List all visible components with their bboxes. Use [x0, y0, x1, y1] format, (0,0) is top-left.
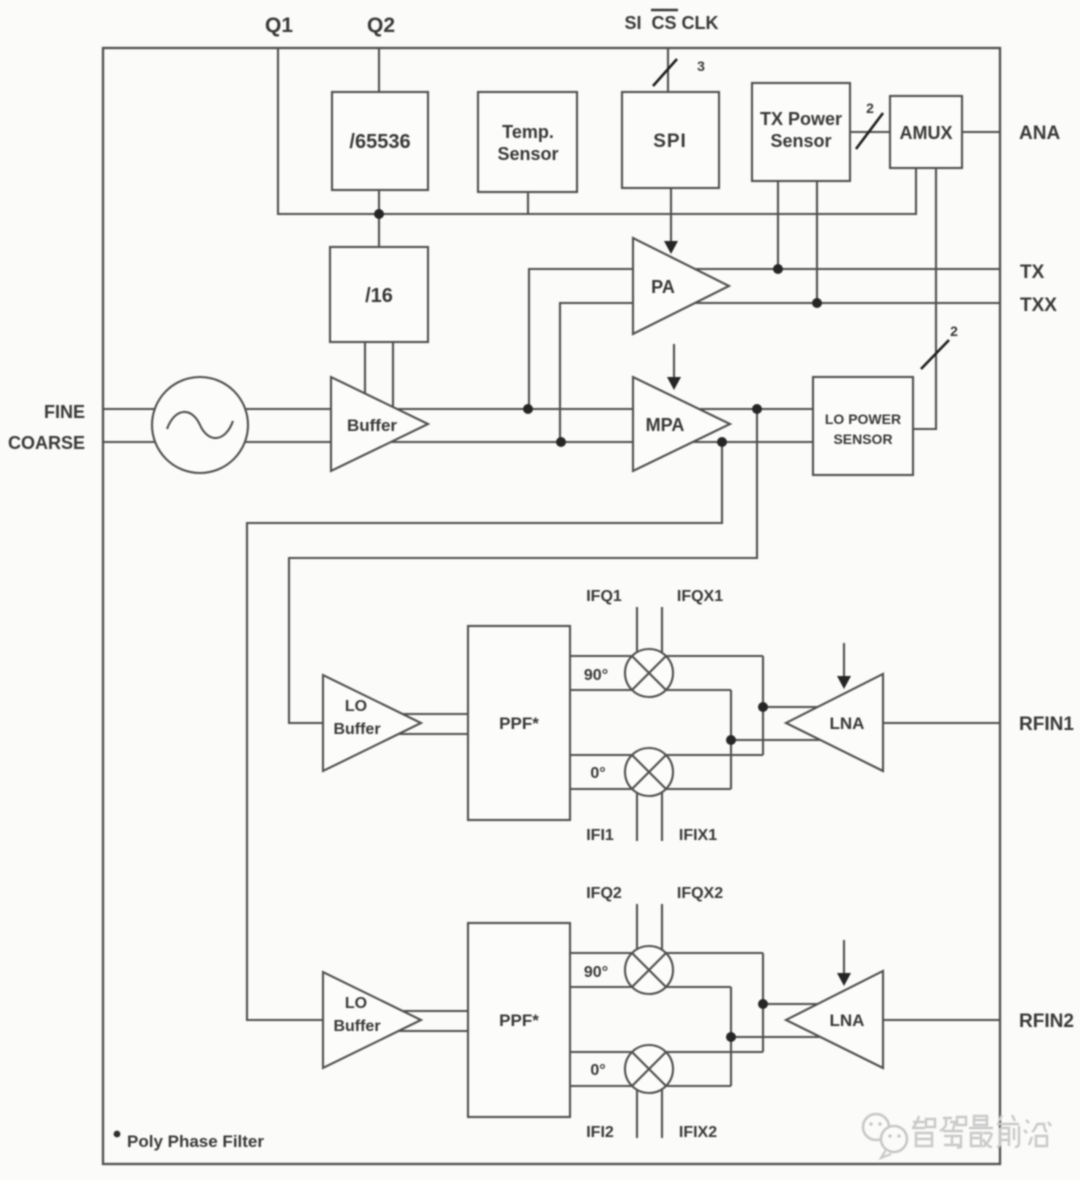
node MPA output upper	[752, 404, 762, 414]
arrow gain control into LNA2	[837, 940, 851, 986]
wire riser buffer output to PA upper input and TX output line	[529, 269, 1000, 409]
PPF block 1	[468, 626, 570, 820]
svg-text:PPF*: PPF*	[499, 714, 539, 733]
wire IFI2 IFIX2 stubs	[637, 1077, 662, 1138]
svg-text:IFQ1: IFQ1	[586, 588, 622, 605]
phase label 0 deg rx2	[590, 1062, 605, 1079]
wire LNA2 upper output	[763, 1003, 855, 1005]
svg-text:CS: CS	[651, 13, 676, 33]
label LO POWER SENSOR	[825, 411, 901, 447]
svg-text:TX Power: TX Power	[760, 109, 842, 129]
phase label 90 deg rx2	[584, 964, 608, 981]
svg-text:IFQX1: IFQX1	[677, 588, 723, 605]
svg-text:IFI2: IFI2	[586, 1124, 614, 1141]
svg-text:IFIX1: IFIX1	[679, 827, 717, 844]
svg-text:0°: 0°	[590, 1062, 605, 1079]
svg-text:LO: LO	[345, 698, 367, 715]
label Buffer	[347, 416, 397, 435]
divider block /16	[330, 247, 428, 342]
wire PPF1 90deg pair to mixer M1 and RF vertical	[570, 656, 763, 690]
pin label IFQX1	[677, 588, 723, 605]
node LNA2 lower	[726, 1032, 736, 1042]
label PA	[651, 277, 675, 297]
svg-text:Q2: Q2	[367, 14, 395, 37]
node LNA2 upper	[758, 999, 768, 1009]
svg-text:SENSOR: SENSOR	[833, 431, 892, 447]
svg-text:RFIN2: RFIN2	[1019, 1011, 1074, 1032]
pin label IFI1	[586, 827, 614, 844]
wire SPI to PA gain arrow	[670, 188, 672, 243]
svg-text:IFI1: IFI1	[586, 827, 614, 844]
bus width label 2 at LO power sensor	[950, 323, 958, 339]
pin label RFIN2	[1019, 1011, 1074, 1032]
bus width slash 3 at SPI	[653, 59, 677, 86]
svg-text:COARSE: COARSE	[8, 433, 85, 453]
arrow gain control into MPA	[667, 344, 681, 390]
bus width label 2 at AMUX	[866, 100, 874, 116]
node MPA output lower	[717, 437, 727, 447]
svg-text:Sensor: Sensor	[497, 144, 558, 164]
svg-text:PA: PA	[651, 277, 675, 297]
pin label IFQX2	[677, 885, 723, 902]
svg-text:2: 2	[866, 100, 874, 116]
pin label COARSE	[8, 433, 85, 453]
temp sensor block	[478, 92, 577, 192]
phase label 0 deg rx1	[590, 765, 605, 782]
pin label TX	[1020, 262, 1045, 283]
wire MPA lower output down to LO Buffer 2	[247, 442, 722, 1020]
wire IFQ1 IFQX1 stubs	[637, 607, 662, 666]
label LNA1	[830, 714, 865, 733]
arrow gain control into PA	[664, 241, 678, 254]
pin label TXX	[1020, 295, 1057, 316]
wire LO Buffer 1 differential output to PPF 1	[340, 714, 468, 734]
wire AMUX to LO power sensor	[913, 168, 936, 429]
amplifier Buffer	[331, 377, 428, 471]
svg-text:3: 3	[697, 58, 705, 74]
svg-text:Sensor: Sensor	[770, 131, 831, 151]
svg-text:IFQX2: IFQX2	[677, 885, 723, 902]
node LNA1 lower	[726, 735, 736, 745]
svg-text:2: 2	[950, 323, 958, 339]
node TX line tap	[773, 264, 783, 274]
wire LNA1 lower output	[731, 739, 858, 741]
phase label 90 deg rx1	[584, 667, 608, 684]
wire LNA2 lower output	[731, 1036, 858, 1038]
wire RF vertical right rx1	[762, 656, 764, 755]
node buffer output lower	[556, 437, 566, 447]
wire FINE line through oscillator buffer MPA to LO power sensor	[103, 408, 813, 410]
wire riser buffer output to PA lower input and TXX output line	[560, 303, 1000, 442]
bus width label 3	[697, 58, 705, 74]
footnote Poly Phase Filter	[114, 1131, 265, 1151]
wire Temp Sensor to control bus	[527, 192, 529, 214]
wire RF vertical left rx2	[730, 987, 732, 1086]
wire PPF2 0deg pair to mixer M4 and RF vertical	[570, 1052, 763, 1086]
svg-text:CLK: CLK	[682, 13, 719, 33]
chip boundary	[103, 48, 1000, 1164]
label PPF 1	[499, 714, 539, 733]
label LNA2	[830, 1011, 865, 1030]
svg-text:TX: TX	[1020, 262, 1045, 283]
pin label IFI2	[586, 1124, 614, 1141]
svg-text:LNA: LNA	[830, 1011, 865, 1030]
amplifier PA	[633, 238, 729, 334]
label LO Buffer 1	[333, 698, 380, 738]
wire PPF1 0deg pair to mixer M2 and RF vertical	[570, 755, 763, 789]
wire RF vertical right rx2	[762, 953, 764, 1052]
pin label RFIN1	[1019, 714, 1074, 735]
svg-text:Buffer: Buffer	[347, 416, 397, 435]
node LNA1 upper	[758, 702, 768, 712]
svg-text:RFIN1: RFIN1	[1019, 714, 1074, 735]
pin label Q2	[367, 14, 395, 37]
wire LNA1 upper output	[763, 706, 855, 708]
label PPF 2	[499, 1011, 539, 1030]
mixer M1	[625, 649, 673, 697]
wire MPA upper output down to LO Buffer 1	[289, 409, 757, 723]
label Temp. Sensor	[497, 122, 558, 164]
pin label IFIX2	[679, 1124, 717, 1141]
wire Q2 into /65536	[378, 48, 380, 92]
wire TX Power Sensor tap to TX line	[777, 181, 779, 269]
value label /16	[365, 285, 393, 307]
wire SI CS CLK into SPI	[667, 48, 669, 92]
wire RFIN2 input to LNA2	[883, 1019, 1000, 1021]
svg-text:MPA: MPA	[646, 415, 685, 435]
svg-text:Buffer: Buffer	[333, 1018, 380, 1035]
label SPI	[653, 131, 687, 152]
oscillator	[152, 377, 248, 473]
wire COARSE line through oscillator buffer MPA to LO power sensor	[103, 441, 813, 443]
svg-text:SI: SI	[624, 13, 641, 33]
mixer M4	[625, 1045, 673, 1093]
wire TX Power Sensor tap to TXX line	[816, 181, 818, 303]
wire PPF2 90deg pair to mixer M3 and RF vertical	[570, 953, 763, 987]
watermark logo	[863, 1114, 907, 1158]
svg-text:SPI: SPI	[653, 131, 687, 152]
svg-text:ANA: ANA	[1019, 123, 1060, 144]
wire TX Power Sensor to AMUX	[850, 131, 890, 133]
pin label IFIX1	[679, 827, 717, 844]
wire RF vertical left rx1	[730, 690, 732, 789]
svg-text:TXX: TXX	[1020, 295, 1057, 316]
pin label ANA	[1019, 123, 1060, 144]
svg-text:/16: /16	[365, 285, 393, 307]
bus width slash 2 at AMUX	[856, 113, 883, 149]
PPF block 2	[468, 923, 570, 1117]
node buffer output upper	[523, 404, 533, 414]
svg-text:IFIX2: IFIX2	[679, 1124, 717, 1141]
AMUX block	[890, 96, 962, 168]
wire IFI1 IFIX1 stubs	[637, 780, 662, 841]
svg-text:Q1: Q1	[265, 14, 293, 37]
wire IFQ2 IFQX2 stubs	[637, 904, 662, 963]
wire /16 to Buffer stub 2	[392, 342, 394, 412]
pin label IFQ1	[586, 588, 622, 605]
wire AMUX to ANA pin	[962, 131, 1000, 133]
svg-text:90°: 90°	[584, 964, 608, 981]
node junction Q2 bus	[374, 209, 384, 219]
bus width slash 2 at LO power sensor	[921, 340, 949, 369]
pin label SI CS CLK	[624, 10, 718, 33]
divider block /65536	[332, 92, 428, 190]
label MPA	[646, 415, 685, 435]
svg-text:FINE: FINE	[44, 402, 85, 422]
LO power sensor block	[813, 377, 913, 475]
svg-text:LO POWER: LO POWER	[825, 411, 901, 427]
node TXX line tap	[812, 298, 822, 308]
svg-text:Poly Phase Filter: Poly Phase Filter	[127, 1132, 264, 1151]
label TX Power Sensor	[760, 109, 842, 151]
wire Q1 to control bus to AMUX	[278, 48, 916, 214]
mixer M2	[625, 748, 673, 796]
amplifier LO Buffer 2	[323, 972, 421, 1068]
svg-text:PPF*: PPF*	[499, 1011, 539, 1030]
wire LO Buffer 2 differential output to PPF 2	[340, 1011, 468, 1031]
mixer M3	[625, 946, 673, 994]
svg-text:Buffer: Buffer	[333, 721, 380, 738]
wire /16 to Buffer stub 1	[364, 342, 366, 400]
svg-text:IFQ2: IFQ2	[586, 885, 622, 902]
amplifier LNA2	[786, 971, 883, 1068]
pin label FINE	[44, 402, 85, 422]
arrow gain control into LNA1	[837, 643, 851, 689]
amplifier MPA	[633, 377, 730, 471]
label AMUX	[900, 123, 953, 143]
watermark text zhi jia zui qian yan	[912, 1115, 1051, 1148]
wire /65536 to /16	[378, 190, 380, 247]
svg-text:Temp.: Temp.	[502, 122, 554, 142]
amplifier LO Buffer 1	[323, 675, 421, 771]
pin label Q1	[265, 14, 293, 37]
value label /65536	[349, 131, 410, 153]
pin label IFQ2	[586, 885, 622, 902]
svg-text:AMUX: AMUX	[900, 123, 953, 143]
wire RFIN1 input to LNA1	[883, 722, 1000, 724]
svg-text:LO: LO	[345, 995, 367, 1012]
label LO Buffer 2	[333, 995, 380, 1035]
svg-text:0°: 0°	[590, 765, 605, 782]
TX power sensor block	[752, 83, 850, 181]
svg-text:90°: 90°	[584, 667, 608, 684]
amplifier LNA1	[786, 674, 883, 771]
svg-text:/65536: /65536	[349, 131, 410, 153]
SPI block	[622, 92, 719, 188]
svg-text:LNA: LNA	[830, 714, 865, 733]
